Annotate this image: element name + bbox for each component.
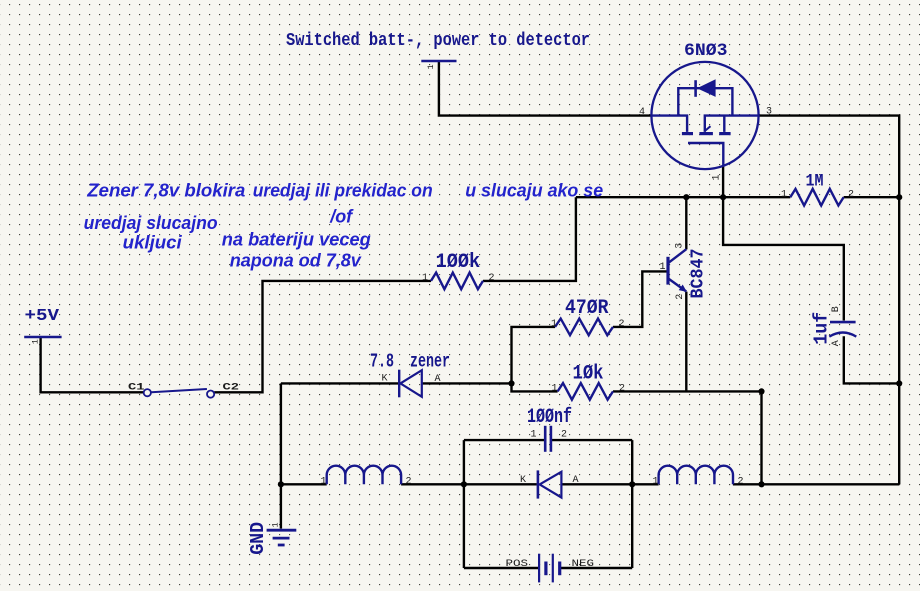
resistor R3 10k zigzag: [558, 383, 613, 400]
svg-text:2: 2: [406, 476, 412, 487]
junction GND drop at bottom row: [278, 481, 284, 487]
svg-text:POS: POS: [506, 558, 529, 570]
mosfet Q1 middle bulk contact with arrow: [699, 132, 713, 135]
mosfet Q1 6N03 body circle: [651, 62, 758, 169]
switch contact C2 circle: [207, 391, 214, 398]
wire top row 100k-riser to 1M and 1M to rail: [576, 196, 899, 198]
svg-text:2: 2: [675, 294, 686, 300]
svg-text:2: 2: [489, 273, 495, 284]
wire zener row: [281, 382, 512, 384]
svg-text:2: 2: [848, 189, 854, 200]
svg-text:3: 3: [766, 107, 772, 118]
wire +5V to switch C1: [41, 337, 144, 392]
svg-text:6NØ3: 6NØ3: [684, 41, 728, 61]
svg-text:1ØØk: 1ØØk: [436, 251, 481, 274]
svg-text:1: 1: [422, 273, 428, 284]
wire 1uf capacitor bottom to right rail: [844, 336, 899, 383]
junction at collector/top row: [683, 194, 689, 200]
wire BC847 collector up to top row: [685, 197, 687, 249]
svg-text:uredjaj slucajno: uredjaj slucajno: [84, 212, 218, 233]
svg-text:uredjaj ili prekidac on: uredjaj ili prekidac on: [253, 180, 433, 201]
svg-text:2: 2: [619, 384, 625, 395]
junction battery loop left: [461, 481, 467, 487]
junction 1M to right rail: [896, 194, 902, 200]
svg-text:1Øk: 1Øk: [573, 362, 604, 385]
svg-text:3: 3: [674, 243, 685, 249]
resistor R2 470R zigzag: [555, 319, 613, 336]
svg-text:napona od 7,8v: napona od 7,8v: [230, 249, 363, 270]
svg-text:1uf: 1uf: [811, 312, 833, 345]
mosfet Q1 body diode: [678, 88, 732, 115]
wire switched-batt stub down to MOSFET pin 4: [439, 62, 652, 116]
svg-text:4: 4: [639, 107, 645, 118]
wire bottom row middle segment (breaks at battery diode): [401, 483, 658, 485]
svg-text:NEG: NEG: [572, 558, 595, 570]
battery B1 long plate 2: [552, 554, 554, 583]
mosfet Q1 gate: [688, 143, 723, 166]
ground symbol bars: [267, 529, 297, 532]
wire battery loop bottom through battery: [464, 567, 632, 569]
wire MOSFET pin 3 to right rail, down right side: [759, 116, 900, 485]
svg-text:1: 1: [551, 319, 557, 330]
diode D2 triangle: [540, 472, 562, 498]
inductor L1 humps: [327, 466, 401, 485]
svg-text:C1: C1: [128, 381, 145, 393]
switch blade: [151, 389, 207, 392]
svg-text:1: 1: [660, 262, 666, 273]
svg-text:2: 2: [619, 319, 625, 330]
svg-text:1: 1: [531, 429, 537, 440]
resistor R4 1M zigzag: [790, 189, 843, 206]
junction 10k right drop: [758, 388, 764, 394]
svg-text:1: 1: [271, 522, 281, 527]
svg-text:+5V: +5V: [25, 307, 60, 326]
wire BC847 emitter drop: [685, 292, 687, 392]
svg-text:1: 1: [781, 189, 787, 200]
svg-text:B: B: [831, 306, 842, 312]
transistor Q2 BC847 base bar: [666, 257, 669, 285]
svg-text:A: A: [573, 475, 579, 486]
svg-text:na bateriju veceg: na bateriju veceg: [222, 229, 371, 250]
transistor Q2 emitter diagonal with arrow: [669, 279, 687, 292]
wire battery loop right vertical: [631, 440, 633, 568]
junction at gate/top row: [720, 194, 726, 200]
svg-text:ukljuci: ukljuci: [123, 232, 183, 253]
svg-text:K: K: [520, 475, 526, 486]
wire junction to 1uf capacitor top: [723, 197, 844, 320]
wire 10k row with jog and drop at right: [512, 383, 762, 484]
svg-text:C2: C2: [223, 381, 240, 393]
svg-text:K: K: [382, 374, 388, 385]
junction battery loop right: [629, 481, 635, 487]
switch contact C1 circle: [144, 389, 151, 396]
svg-text:1: 1: [712, 174, 723, 180]
svg-text:1: 1: [426, 64, 436, 69]
resistor R1 100k zigzag: [431, 273, 483, 290]
zener D1 cathode bar: [398, 370, 400, 398]
inductor L2 humps: [659, 466, 733, 485]
battery B1 short plate 2: [558, 562, 561, 576]
wire battery loop left vertical: [463, 440, 465, 568]
zener D1 triangle: [400, 370, 421, 397]
svg-text:/of: /of: [329, 206, 354, 227]
svg-text:Switched batt-, power to detec: Switched batt-, power to detector: [286, 31, 590, 51]
supply +5V bar: [24, 336, 61, 338]
junction 1uf bottom to right rail: [896, 380, 902, 386]
junction zener/470R/10k node: [508, 380, 514, 386]
svg-text:1: 1: [321, 476, 327, 487]
wire 470R branch up to BC847 base: [512, 271, 667, 383]
wire MOSFET gate down to top row junction: [722, 165, 724, 197]
wire GND drop: [280, 383, 282, 528]
battery B1 long plate 1: [538, 554, 540, 583]
svg-text:2: 2: [738, 476, 744, 487]
capacitor C4 1uf straight plate: [830, 321, 856, 324]
supply stub bar for switched batt net: [421, 60, 456, 62]
transistor Q2 collector diagonal: [669, 249, 687, 262]
capacitor C4 1uf curved plate: [829, 333, 856, 337]
svg-text:7.8 zener: 7.8 zener: [370, 350, 450, 372]
junction bottom row at 10k drop: [758, 481, 764, 487]
svg-text:1: 1: [31, 339, 41, 344]
svg-text:u slucaju ako se: u slucaju ako se: [465, 180, 603, 201]
svg-text:1M: 1M: [806, 171, 824, 191]
svg-text:1ØØnf: 1ØØnf: [527, 406, 572, 429]
mosfet Q1 drain line and contact: [705, 116, 759, 132]
wire bottom row left segment: [281, 483, 327, 485]
svg-text:47ØR: 47ØR: [565, 297, 609, 320]
svg-text:GND: GND: [247, 522, 269, 555]
svg-text:1: 1: [552, 384, 558, 395]
wire 100k row, riser, left leg down to switch: [214, 197, 576, 392]
capacitor C3 100nf plates: [544, 426, 547, 452]
svg-text:A: A: [831, 340, 842, 346]
svg-text:A: A: [435, 374, 441, 385]
diode D2 cathode bar: [537, 470, 540, 498]
wire battery loop top through 100nf: [464, 439, 632, 441]
mosfet Q1 source line and contact: [652, 116, 687, 132]
svg-text:Zener 7,8v blokira: Zener 7,8v blokira: [86, 180, 245, 201]
wire bottom row right segment: [733, 483, 899, 485]
svg-text:1: 1: [653, 476, 659, 487]
svg-text:BC847: BC847: [689, 249, 709, 299]
svg-text:2: 2: [561, 429, 567, 440]
battery B1 short plate 1: [544, 562, 547, 576]
